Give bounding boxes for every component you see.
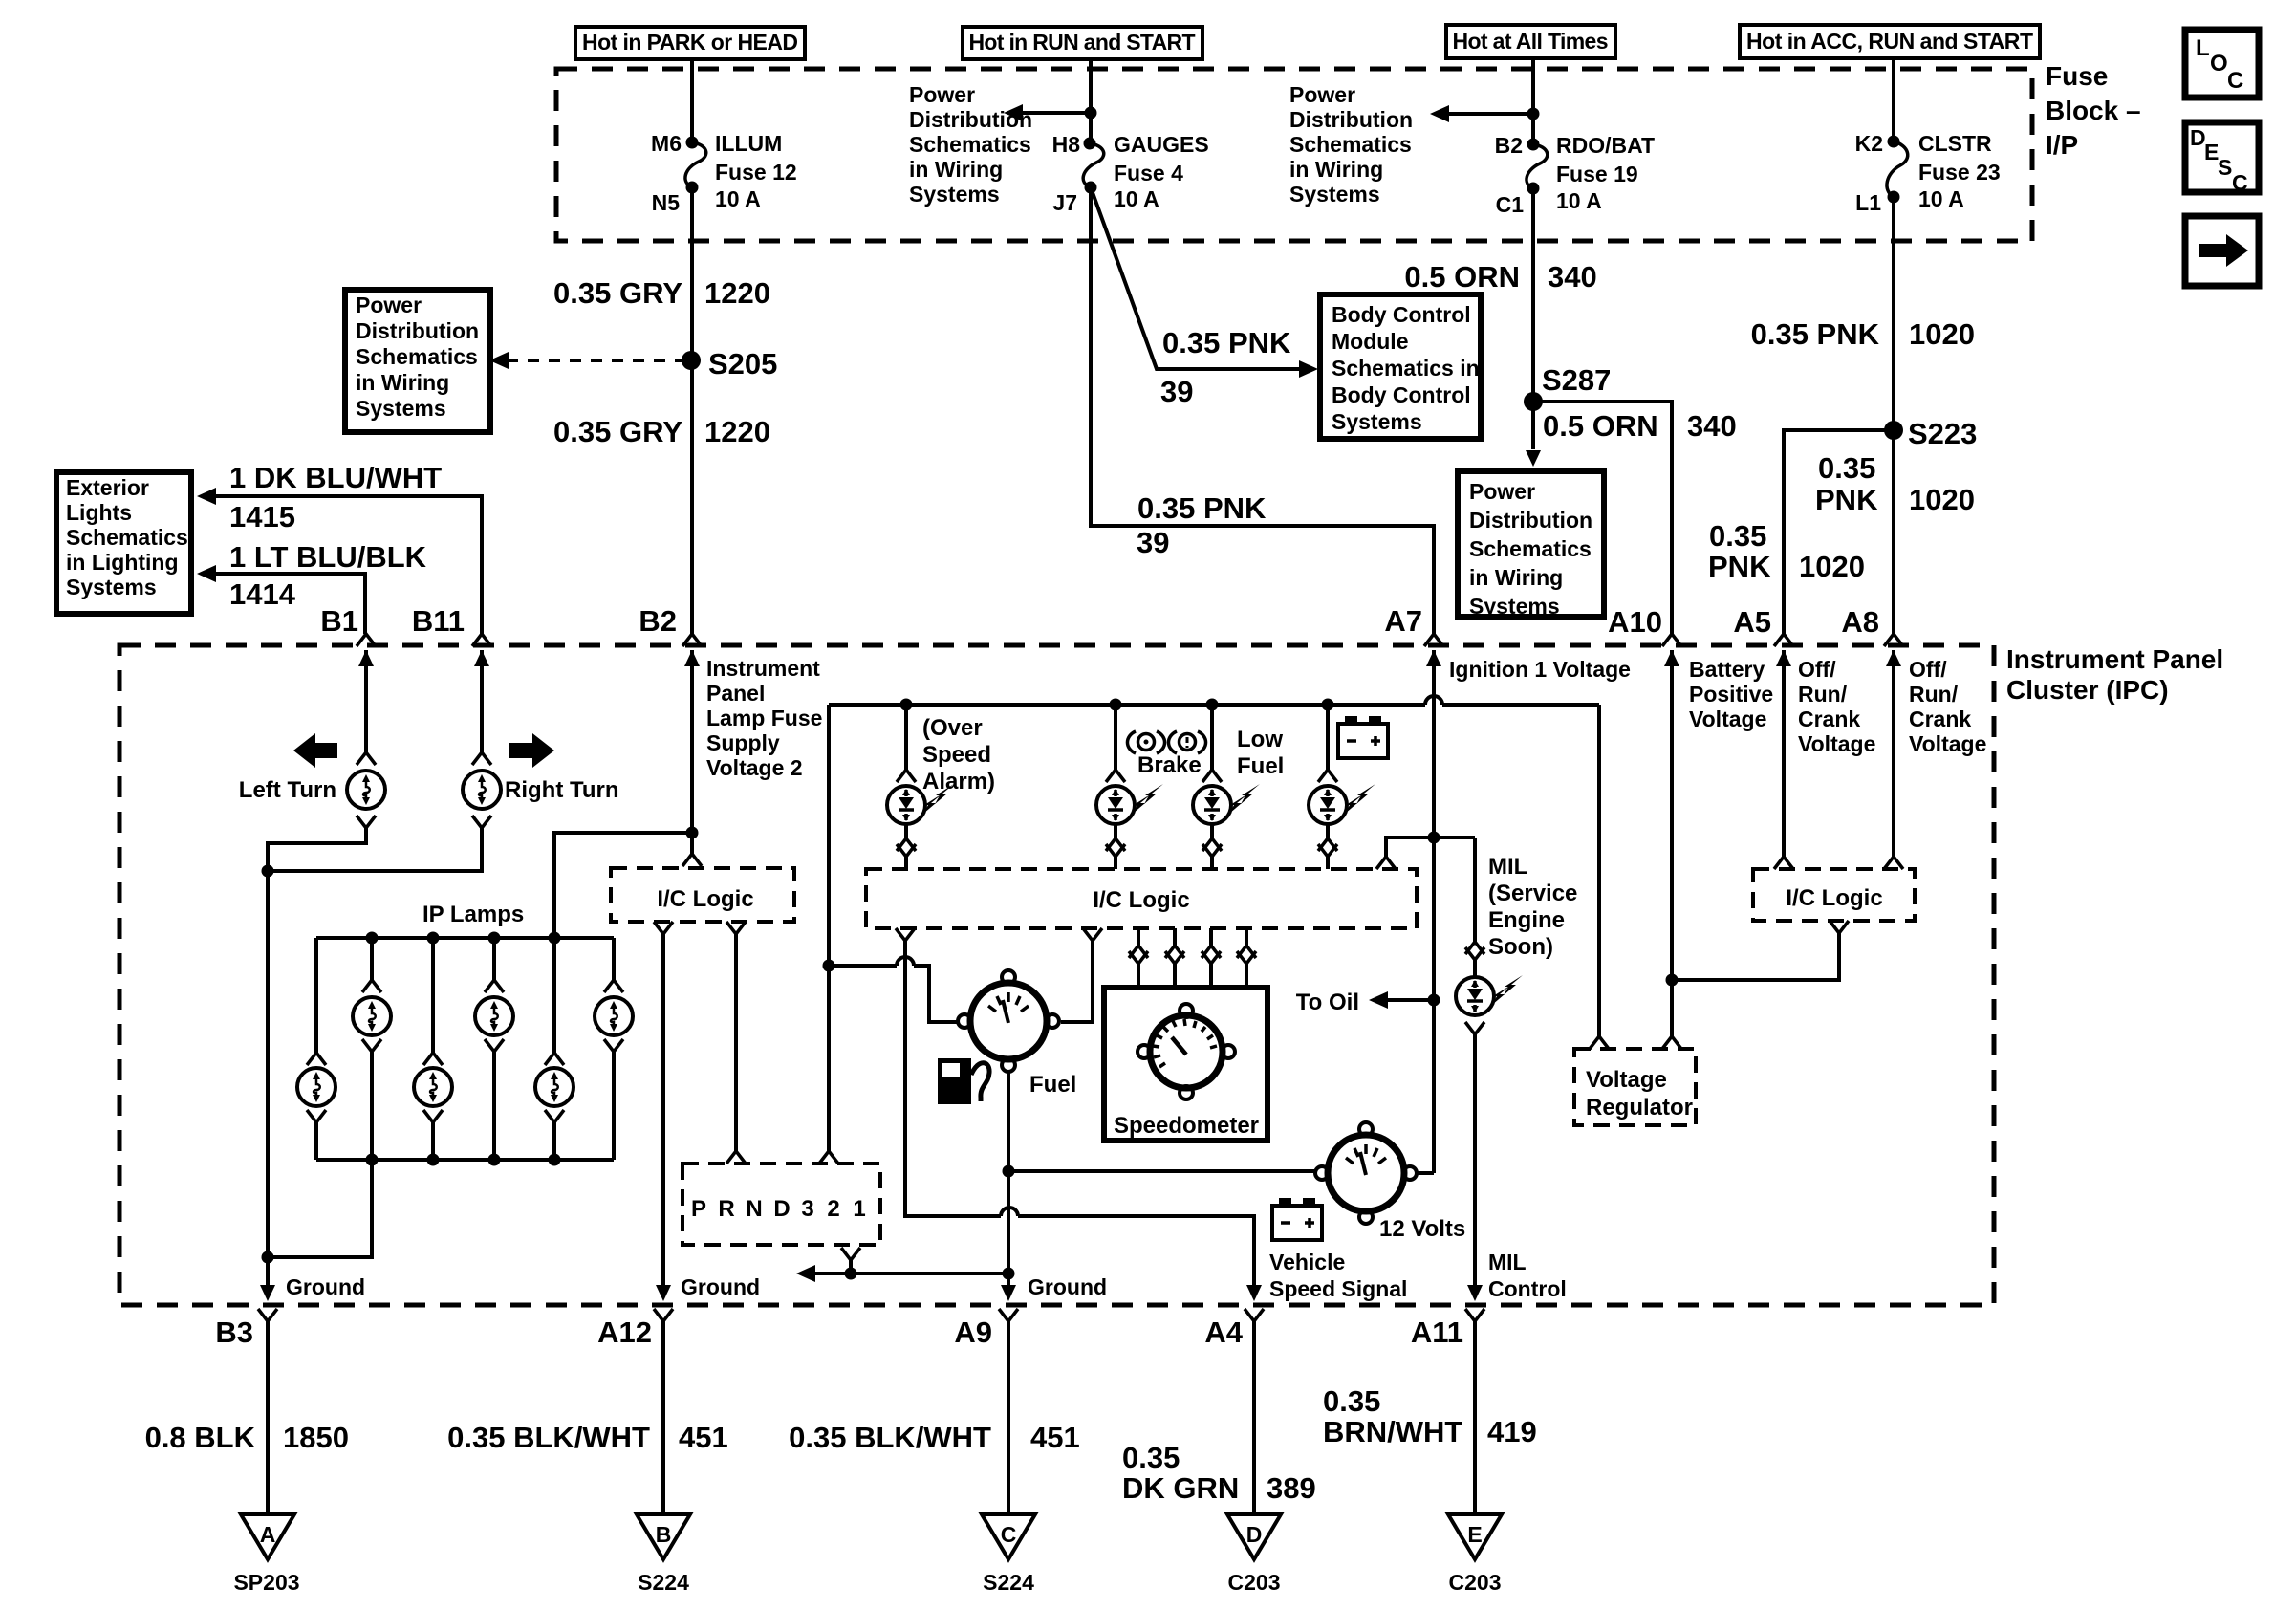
svg-text:Distribution: Distribution: [1469, 508, 1592, 533]
indicator LED: battery: [1309, 705, 1375, 869]
svg-text:J7: J7: [1052, 190, 1077, 215]
connector A7 at IPC: [1424, 634, 1443, 666]
crossover bump of vss over A9 ground wire: [1001, 1207, 1018, 1216]
connector below MIL LED: [1465, 1022, 1484, 1034]
IP lamp column 3 (lower row): [414, 938, 452, 1160]
label: 0.35 GRY 1220 (upper): [553, 276, 770, 310]
connector into I/C logic (MIL sense): [1376, 857, 1396, 869]
node: lamp supply junction: [686, 827, 699, 839]
wire: 1 LT BLU/BLK 1414 to B1: [197, 565, 365, 634]
connector triangle D: [1227, 1514, 1281, 1559]
connector above right turn lamp: [472, 752, 491, 765]
fuse F19 RDO/BAT: [1495, 133, 1655, 217]
svg-text:I/C Logic: I/C Logic: [1093, 887, 1189, 913]
connector labels row (IPC top): [320, 604, 1879, 639]
icon: fuel pump: [938, 1058, 989, 1104]
connector: fuel gauge right feed from I/C logic: [1061, 928, 1102, 1022]
svg-text:Hot in ACC, RUN and START: Hot in ACC, RUN and START: [1746, 29, 2033, 54]
svg-text:CLSTR: CLSTR: [1918, 131, 1992, 156]
svg-text:A7: A7: [1384, 604, 1422, 638]
icon: battery symbol (charge indicator): [1338, 716, 1388, 758]
svg-text:Supply: Supply: [706, 730, 780, 755]
svg-text:Systems: Systems: [1332, 409, 1422, 434]
svg-text:C: C: [1001, 1522, 1017, 1547]
svg-text:0.5 ORN: 0.5 ORN: [1543, 409, 1658, 443]
svg-text:3: 3: [801, 1196, 813, 1222]
svg-text:Hot in RUN and START: Hot in RUN and START: [969, 30, 1196, 54]
svg-text:A12: A12: [597, 1316, 652, 1349]
svg-text:Speed: Speed: [922, 742, 991, 768]
box: power distribution schematics in wiring systems (left): [345, 290, 490, 432]
node on top bus 3: [488, 932, 501, 945]
svg-text:1020: 1020: [1909, 317, 1975, 351]
wire: 12V gauge to ignition wire: [1417, 1171, 1434, 1175]
node: regulator/IC junction: [1666, 974, 1679, 987]
flow arrow box: [2185, 216, 2259, 286]
wire: 0.35 PNK 1020 from L1 to S223: [1892, 197, 1895, 430]
wire: lamp supply branch to IP lamps bus: [554, 833, 692, 938]
svg-text:Schematics: Schematics: [66, 525, 188, 550]
svg-text:S224: S224: [983, 1570, 1034, 1595]
svg-text:GAUGES: GAUGES: [1114, 132, 1209, 157]
connector A4 below IPC: [1245, 1309, 1264, 1321]
svg-text:Lights: Lights: [66, 500, 132, 525]
svg-text:A5: A5: [1733, 605, 1771, 639]
node S205: [682, 347, 777, 381]
svg-text:M6: M6: [651, 131, 682, 156]
svg-text:Body Control: Body Control: [1332, 382, 1471, 407]
svg-text:A9: A9: [954, 1316, 992, 1349]
wire: J7 diagonal to BCM: [1091, 187, 1303, 369]
svg-text:1220: 1220: [704, 415, 770, 448]
svg-text:IP Lamps: IP Lamps: [422, 902, 524, 927]
svg-text:Instrument Panel: Instrument Panel: [2006, 644, 2223, 674]
IP lamp column 6 (upper row): [595, 938, 633, 1160]
wire: S223 branch to A5: [1784, 430, 1894, 634]
wire: fuel sense branch to fuel gauge: [829, 966, 957, 1022]
svg-text:Crank: Crank: [1798, 707, 1860, 731]
svg-text:Fuse 12: Fuse 12: [715, 160, 797, 185]
label: Low Fuel: [1237, 727, 1284, 779]
svg-text:B11: B11: [412, 604, 465, 638]
wire: MIL branch right to LED: [1434, 836, 1475, 839]
svg-text:340: 340: [1548, 260, 1597, 294]
node: low fuel feed: [1206, 699, 1219, 711]
box: speedometer: [1104, 988, 1267, 1141]
connector below PRND box: [841, 1248, 860, 1260]
svg-text:Ground: Ground: [681, 1274, 760, 1299]
wire: A8 into I/C logic right: [1892, 650, 1895, 857]
svg-text:0.35: 0.35: [1709, 519, 1766, 553]
arrow: to oil: [1369, 991, 1434, 1009]
svg-text:Exterior: Exterior: [66, 475, 149, 500]
label: 0.35 PNK 39 (BCM branch): [1160, 326, 1291, 408]
svg-text:39: 39: [1137, 526, 1169, 559]
wire: PRND output to ground link: [849, 1260, 853, 1273]
svg-text:Voltage: Voltage: [1798, 731, 1875, 756]
label: Battery Positive Voltage: [1689, 657, 1773, 731]
svg-text:Schematics: Schematics: [1469, 536, 1592, 561]
node on bottom bus 4: [549, 1154, 561, 1166]
IP lamp column 1 (lower row): [297, 938, 336, 1160]
svg-text:(Service: (Service: [1488, 881, 1577, 906]
gauge: fuel: [958, 970, 1076, 1098]
wire: Hot in RUN feed to fuse 4: [1089, 59, 1093, 143]
lamp: left turn: [347, 771, 385, 809]
node: brake feed: [1110, 699, 1122, 711]
connector B11 at IPC: [472, 634, 491, 666]
svg-text:P: P: [691, 1196, 706, 1222]
svg-text:I/C Logic: I/C Logic: [657, 886, 753, 912]
svg-text:B1: B1: [320, 604, 358, 638]
node on top bus 4: [549, 932, 561, 945]
node on bottom bus 1: [366, 1154, 379, 1166]
node: to oil tap: [1428, 994, 1440, 1007]
wire: ground bus down to B3 junction: [266, 871, 270, 1257]
box: I/C Logic (right): [1753, 869, 1915, 921]
svg-text:Schematics: Schematics: [909, 132, 1031, 157]
lamp: right turn: [463, 771, 501, 809]
svg-text:B3: B3: [215, 1316, 253, 1349]
svg-text:Right Turn: Right Turn: [505, 777, 619, 803]
title box: Hot in RUN and START: [963, 27, 1202, 59]
arrow to power distribution (left): [1004, 104, 1091, 121]
svg-text:H8: H8: [1052, 132, 1081, 157]
svg-text:S223: S223: [1908, 417, 1977, 450]
node on bottom bus 3: [488, 1154, 501, 1166]
svg-text:Fuse 4: Fuse 4: [1114, 161, 1183, 185]
fuse F4 GAUGES: [1052, 132, 1209, 215]
svg-text:BRN/WHT: BRN/WHT: [1323, 1415, 1462, 1448]
connector A12 below IPC: [654, 1309, 673, 1321]
connector: voltage regulator right pin: [1662, 1036, 1681, 1049]
wire: S287 down arrow to power dist box: [1526, 402, 1541, 467]
svg-text:in Wiring: in Wiring: [909, 157, 1003, 182]
svg-text:10 A: 10 A: [715, 186, 761, 211]
svg-text:Systems: Systems: [909, 182, 1000, 207]
svg-text:Lamp Fuse: Lamp Fuse: [706, 706, 822, 730]
node: fuel/12V junction: [1003, 1165, 1015, 1178]
svg-text:1415: 1415: [229, 500, 295, 533]
label: MIL (Service Engine Soon): [1488, 854, 1577, 960]
svg-text:419: 419: [1487, 1415, 1537, 1448]
svg-text:1414: 1414: [229, 577, 296, 611]
svg-text:B2: B2: [1495, 133, 1523, 158]
svg-text:C203: C203: [1228, 1570, 1281, 1595]
svg-text:N5: N5: [652, 190, 681, 215]
indicator LED: brake: [1096, 705, 1163, 869]
svg-text:E: E: [1467, 1522, 1482, 1547]
svg-text:1 LT BLU/BLK: 1 LT BLU/BLK: [229, 540, 427, 574]
svg-text:A11: A11: [1411, 1316, 1463, 1349]
wire: left turn lamp ground jog: [268, 828, 366, 871]
svg-text:0.35: 0.35: [1122, 1441, 1180, 1474]
wire: fuel sense to PRND box: [819, 1151, 838, 1164]
label: 0.8 BLK 1850: [145, 1421, 349, 1454]
connector A11 below IPC: [1465, 1309, 1484, 1321]
svg-text:1 DK BLU/WHT: 1 DK BLU/WHT: [229, 461, 442, 494]
svg-text:C: C: [2227, 68, 2243, 94]
indicator LED: low fuel: [1193, 705, 1260, 869]
svg-text:PNK: PNK: [1815, 483, 1878, 516]
box: I/C Logic (left): [611, 868, 794, 922]
svg-text:Ignition 1 Voltage: Ignition 1 Voltage: [1449, 657, 1631, 682]
left turn arrow icon: [293, 733, 337, 768]
svg-text:D: D: [773, 1196, 790, 1222]
svg-text:R: R: [718, 1196, 734, 1222]
title box: Hot in ACC, RUN and START: [1740, 25, 2040, 58]
label: 0.5 ORN 340 (upper): [1404, 260, 1596, 294]
wire: A12 ground from I/C logic: [656, 934, 671, 1301]
label: 1 LT BLU/BLK 1414: [229, 540, 427, 611]
fuse F12 ILLUM: [651, 131, 797, 215]
wire: 0.35 GRY 1220 upper segment: [690, 187, 694, 634]
IPC dashed box: [119, 645, 1994, 1305]
connector B2 into I/C logic 1: [682, 854, 702, 866]
box: I/C Logic (center): [866, 869, 1417, 928]
svg-text:I/C Logic: I/C Logic: [1786, 885, 1882, 911]
wire: B3 to splice A: [266, 1321, 270, 1514]
wire: Hot in PARK feed to fuse 12: [690, 59, 694, 142]
svg-text:0.35 GRY: 0.35 GRY: [553, 415, 682, 448]
node on bottom bus 2: [427, 1154, 440, 1166]
svg-text:2: 2: [827, 1196, 839, 1222]
svg-text:389: 389: [1267, 1471, 1316, 1505]
svg-text:Block –: Block –: [2046, 96, 2141, 125]
svg-text:B2: B2: [639, 604, 677, 638]
label: power distribution schematics (top right): [1289, 82, 1413, 207]
svg-text:C203: C203: [1449, 1570, 1502, 1595]
wire: A4 to connector D: [1252, 1321, 1256, 1514]
node: gauges feed junction: [1085, 107, 1097, 120]
svg-text:DK GRN: DK GRN: [1122, 1471, 1239, 1505]
svg-text:N: N: [746, 1196, 762, 1222]
wire: B2 into IPC down to junction: [690, 650, 694, 854]
connector pair above MIL LED: [1465, 838, 1484, 977]
label: Off/Run/Crank Voltage (A5): [1798, 657, 1875, 756]
svg-text:L1: L1: [1855, 190, 1881, 215]
svg-text:1: 1: [853, 1196, 865, 1222]
svg-text:0.8 BLK: 0.8 BLK: [145, 1421, 256, 1454]
wire: A5 into I/C logic right: [1782, 650, 1786, 857]
svg-text:C: C: [2232, 170, 2248, 195]
connector into PRND box: [726, 1151, 746, 1164]
svg-text:K2: K2: [1855, 131, 1883, 156]
svg-text:Fuse: Fuse: [2046, 61, 2108, 91]
wire: Hot in ACC feed to fuse 23: [1892, 58, 1895, 141]
node: B3 ground junction: [262, 1251, 274, 1264]
svg-text:Systems: Systems: [1469, 594, 1560, 619]
connector A10 at IPC: [1662, 634, 1681, 666]
svg-text:Control: Control: [1488, 1276, 1567, 1301]
svg-text:in Wiring: in Wiring: [1289, 157, 1383, 182]
svg-text:Systems: Systems: [66, 575, 157, 599]
svg-text:12 Volts: 12 Volts: [1379, 1216, 1465, 1242]
svg-text:Low: Low: [1237, 727, 1283, 752]
svg-text:in Lighting: in Lighting: [66, 550, 179, 575]
svg-text:Voltage: Voltage: [1689, 707, 1766, 731]
svg-text:Off/: Off/: [1798, 657, 1836, 682]
svg-text:0.35 PNK: 0.35 PNK: [1162, 326, 1291, 359]
svg-text:Systems: Systems: [1289, 182, 1380, 207]
svg-text:SP203: SP203: [233, 1570, 299, 1595]
connector A8 into I/C logic right: [1884, 857, 1903, 869]
wire: S287 right branch to A10: [1533, 402, 1672, 634]
indicator LED: MIL: [1456, 975, 1523, 1015]
wire: ignition down to To-Oil node: [1432, 838, 1436, 1173]
svg-text:340: 340: [1687, 409, 1737, 443]
connector below I/C logic right: [1830, 921, 1849, 933]
svg-text:A8: A8: [1841, 605, 1879, 639]
node: over speed feed: [900, 699, 913, 711]
svg-text:0.35: 0.35: [1323, 1384, 1380, 1418]
svg-text:S205: S205: [708, 347, 777, 381]
connector: voltage regulator left pin: [1590, 1036, 1609, 1049]
svg-text:Panel: Panel: [706, 681, 765, 706]
box: power distribution schematics (below S287): [1458, 471, 1604, 619]
svg-text:S224: S224: [638, 1570, 689, 1595]
svg-text:L: L: [2196, 35, 2210, 61]
svg-text:0.35 BLK/WHT: 0.35 BLK/WHT: [789, 1421, 991, 1454]
node: PRND ground junction: [845, 1268, 857, 1280]
svg-text:B: B: [656, 1522, 672, 1547]
svg-text:Fuel: Fuel: [1237, 753, 1284, 779]
label: MIL Control: [1488, 1250, 1567, 1301]
label: 0.5 ORN 340 (lower): [1543, 409, 1737, 443]
label: 0.35 BLK/WHT 451 (B): [447, 1421, 728, 1454]
svg-text:MIL: MIL: [1488, 854, 1527, 880]
wire: B11 to right turn lamp: [480, 650, 484, 752]
svg-text:Fuel: Fuel: [1029, 1072, 1076, 1098]
svg-text:PNK: PNK: [1708, 550, 1771, 583]
svg-text:Ground: Ground: [1028, 1274, 1107, 1299]
node S287: [1524, 363, 1611, 411]
node: battery indicator feed: [1322, 699, 1334, 711]
connector: I/C logic 1 bottom left (A12): [654, 922, 673, 934]
svg-text:Regulator: Regulator: [1586, 1095, 1693, 1120]
right turn arrow icon: [509, 733, 554, 768]
wire: MIL control down to A11: [1467, 1034, 1483, 1301]
wire: I/C logic to PRND box: [734, 934, 738, 1151]
svg-text:Power: Power: [1469, 479, 1535, 504]
svg-text:Voltage: Voltage: [1909, 731, 1986, 756]
svg-text:451: 451: [679, 1421, 728, 1454]
wire: I/C logic right output to battery wire: [1672, 933, 1839, 980]
svg-text:Speed Signal: Speed Signal: [1269, 1276, 1407, 1301]
connector A9 below IPC: [999, 1309, 1018, 1321]
svg-text:Hot at All Times: Hot at All Times: [1453, 29, 1609, 54]
box: PRND321 indicator: [682, 1164, 880, 1245]
wire: feed elbow down on left to fuel sense: [827, 705, 831, 1151]
node: MIL junction on ignition wire: [1428, 832, 1440, 844]
svg-text:Power: Power: [356, 293, 422, 317]
arrow: vehicle speed signal to A4: [1246, 1285, 1262, 1301]
svg-text:O: O: [2210, 51, 2228, 76]
svg-text:Instrument: Instrument: [706, 656, 820, 681]
IP lamp column 5 (lower row): [535, 938, 574, 1160]
svg-text:10 A: 10 A: [1556, 188, 1602, 213]
label: Off/Run/Crank Voltage (A8): [1909, 657, 1986, 756]
label: instrument panel lamp fuse supply voltage 2: [706, 656, 822, 780]
svg-text:0.35 PNK: 0.35 PNK: [1751, 317, 1880, 351]
svg-text:Off/: Off/: [1909, 657, 1947, 682]
label: 0.35 BLK/WHT 451 (C): [789, 1421, 1080, 1454]
wire: fuel gauge ground down to A9: [1007, 1073, 1010, 1285]
svg-text:Battery: Battery: [1689, 657, 1765, 682]
splice triangle A: [241, 1514, 294, 1559]
svg-text:Fuse 23: Fuse 23: [1918, 160, 2001, 185]
node S223: [1884, 417, 1977, 450]
svg-text:Schematics: Schematics: [1289, 132, 1412, 157]
svg-text:S287: S287: [1542, 363, 1611, 397]
svg-text:Vehicle: Vehicle: [1269, 1250, 1345, 1274]
box: exterior lights schematics: [56, 472, 191, 614]
svg-text:Hot in PARK or HEAD: Hot in PARK or HEAD: [582, 30, 798, 54]
connector A5 into I/C logic right: [1774, 857, 1793, 869]
label: Fuse Block - I/P: [2046, 61, 2141, 160]
svg-text:MIL: MIL: [1488, 1250, 1527, 1274]
svg-text:in Wiring: in Wiring: [356, 370, 449, 395]
svg-text:Distribution: Distribution: [909, 107, 1032, 132]
wire: right turn lamp to ground bus: [268, 828, 482, 871]
svg-text:Positive: Positive: [1689, 682, 1773, 707]
indicator LED: over speed alarm: [887, 705, 954, 869]
connector: I/C logic 1 bottom right (PRND): [726, 922, 746, 934]
svg-text:0.35 PNK: 0.35 PNK: [1137, 491, 1267, 525]
svg-text:1020: 1020: [1909, 483, 1975, 516]
svg-text:Alarm): Alarm): [922, 769, 995, 794]
svg-text:RDO/BAT: RDO/BAT: [1556, 133, 1655, 158]
svg-text:Schematics: Schematics: [356, 344, 478, 369]
LOC box: [2185, 30, 2259, 98]
connector triangle E: [1448, 1514, 1502, 1559]
connector A5 at IPC: [1774, 634, 1793, 666]
svg-text:1850: 1850: [283, 1421, 349, 1454]
gauge: 12 volts: [1315, 1122, 1465, 1242]
svg-text:Run/: Run/: [1909, 682, 1959, 707]
connectors: speedometer pins from I/C logic: [1129, 928, 1148, 988]
node on top bus 2: [427, 932, 440, 945]
svg-text:Run/: Run/: [1798, 682, 1848, 707]
connector below left turn lamp: [357, 816, 376, 828]
svg-text:0.35 GRY: 0.35 GRY: [553, 276, 682, 310]
svg-text:10 A: 10 A: [1114, 186, 1159, 211]
svg-text:S: S: [2218, 155, 2232, 180]
wire: A12 to splice B: [661, 1321, 665, 1514]
title box: Hot at All Times: [1446, 25, 1615, 58]
svg-text:Fuse 19: Fuse 19: [1556, 162, 1638, 186]
svg-text:0.35: 0.35: [1818, 451, 1875, 485]
wire: feed elbow down to voltage regulator left pin: [1597, 705, 1601, 1036]
crossover bump at vss wire: [897, 957, 914, 966]
svg-text:Voltage: Voltage: [1586, 1067, 1667, 1093]
connector above left turn lamp: [357, 752, 376, 765]
connector: I/C logic to vss output: [896, 928, 1254, 1285]
box: voltage regulator: [1574, 1049, 1696, 1125]
wire: MIL branch to I/C logic: [1386, 838, 1434, 857]
label: Instrument Panel Cluster (IPC): [2006, 644, 2223, 705]
wire: 1 DK BLU/WHT 1415 to B11: [197, 488, 482, 634]
svg-text:Ground: Ground: [286, 1274, 365, 1299]
label: 0.35 BRN/WHT 419: [1323, 1384, 1537, 1448]
arrow into BCM box: [1299, 360, 1318, 378]
svg-text:Engine: Engine: [1488, 907, 1565, 933]
svg-text:D: D: [1246, 1522, 1263, 1547]
svg-text:Systems: Systems: [356, 396, 446, 421]
svg-text:0.35 BLK/WHT: 0.35 BLK/WHT: [447, 1421, 650, 1454]
svg-text:A4: A4: [1204, 1316, 1243, 1349]
svg-text:Left Turn: Left Turn: [239, 777, 336, 803]
